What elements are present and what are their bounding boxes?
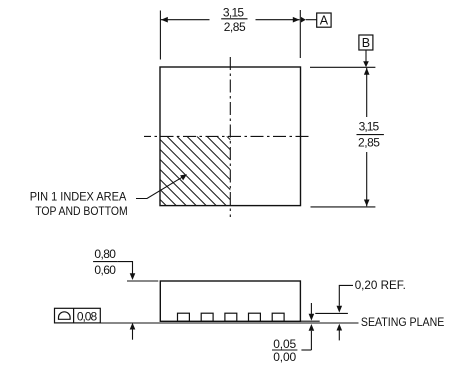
top dimension line right segment [256, 19, 300, 21]
pin 1 index hatch area [61, 100, 361, 270]
terminal 4 [249, 313, 261, 321]
terminal top extension line [315, 312, 348, 314]
terminal 3 [225, 313, 237, 321]
seating plane line [100, 322, 358, 324]
0,05/0,00 down arrow [310, 303, 312, 314]
pin 1 note leader arrowhead [180, 174, 187, 180]
svg-text:0,08: 0,08 [77, 310, 98, 324]
svg-text:B: B [362, 36, 370, 50]
svg-text:0,00: 0,00 [273, 350, 296, 364]
right dimension top extension line [310, 66, 375, 68]
pin 1 note leader [136, 176, 185, 199]
0,80/0,60 down arrow [130, 273, 136, 280]
datum A box [317, 13, 331, 27]
terminal 2 [201, 313, 213, 321]
right dimension up arrow [364, 68, 370, 75]
datum A triangle [301, 17, 306, 23]
svg-text:TOP AND BOTTOM: TOP AND BOTTOM [35, 204, 128, 218]
svg-text:3,15: 3,15 [223, 6, 245, 20]
package body outline (side view) [160, 281, 300, 321]
top dimension line left segment [161, 19, 210, 21]
svg-text:PIN 1 INDEX AREA: PIN 1 INDEX AREA [30, 189, 127, 203]
right dimension bottom extension line [311, 206, 376, 208]
0,05/0,00 leader elbow [301, 349, 311, 351]
svg-text:2,85: 2,85 [224, 20, 246, 34]
0,20 down arrow [337, 306, 343, 313]
terminal 1 [178, 313, 190, 321]
package body outline (top view) [160, 67, 301, 206]
0,20 up arrow [337, 324, 343, 331]
top dimension extension line left [159, 11, 161, 60]
terminal 5 [272, 313, 284, 321]
flatness feature control frame [55, 308, 101, 323]
top dimension extension line right [299, 10, 301, 58]
datum B leader [365, 50, 367, 62]
body top extension line [127, 280, 158, 282]
0,80/0,60 leader elbow [117, 262, 132, 274]
datum B triangle [363, 61, 369, 67]
top dimension right arrow [293, 17, 300, 23]
svg-text:0,20 REF.: 0,20 REF. [355, 278, 406, 292]
0,20 leader elbow [339, 285, 353, 305]
right dimension line lower segment [366, 152, 368, 206]
svg-text:0,80: 0,80 [94, 247, 116, 261]
svg-text:2,85: 2,85 [358, 136, 380, 150]
body bottom extension line [300, 320, 319, 322]
datum B box [359, 35, 373, 50]
flatness (seating plane) dome symbol [58, 318, 71, 320]
0,05/0,00 up arrow [309, 324, 315, 331]
svg-text:3,15: 3,15 [359, 120, 380, 134]
svg-text:0,60: 0,60 [94, 263, 116, 277]
top dimension left arrow [161, 17, 168, 23]
svg-text:A: A [320, 14, 329, 28]
horizontal centerline [144, 135, 311, 137]
datum A leader [306, 19, 317, 21]
right dimension line upper segment [366, 68, 368, 117]
0,80/0,60 up arrow [130, 323, 136, 330]
right dimension down arrow [364, 200, 370, 207]
svg-text:SEATING PLANE: SEATING PLANE [361, 315, 444, 329]
vertical centerline [229, 57, 231, 217]
